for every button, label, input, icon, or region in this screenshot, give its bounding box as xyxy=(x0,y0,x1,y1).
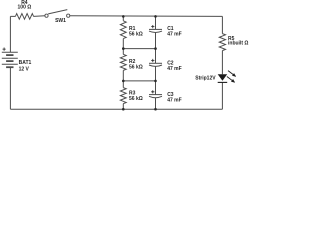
svg-text:47 mF: 47 mF xyxy=(167,66,181,72)
svg-text:100 Ω: 100 Ω xyxy=(18,5,32,11)
svg-text:12 V: 12 V xyxy=(19,67,30,73)
svg-text:47 mF: 47 mF xyxy=(167,98,181,104)
svg-text:56 kΩ: 56 kΩ xyxy=(129,64,143,70)
svg-text:56 kΩ: 56 kΩ xyxy=(129,96,143,102)
svg-text:47 mF: 47 mF xyxy=(167,31,181,37)
svg-text:BAT1: BAT1 xyxy=(19,60,32,66)
svg-text:Strip12V: Strip12V xyxy=(195,76,216,82)
svg-text:inbuilt Ω: inbuilt Ω xyxy=(228,41,248,47)
svg-text:56 kΩ: 56 kΩ xyxy=(129,31,143,37)
svg-text:SW1: SW1 xyxy=(55,18,66,24)
